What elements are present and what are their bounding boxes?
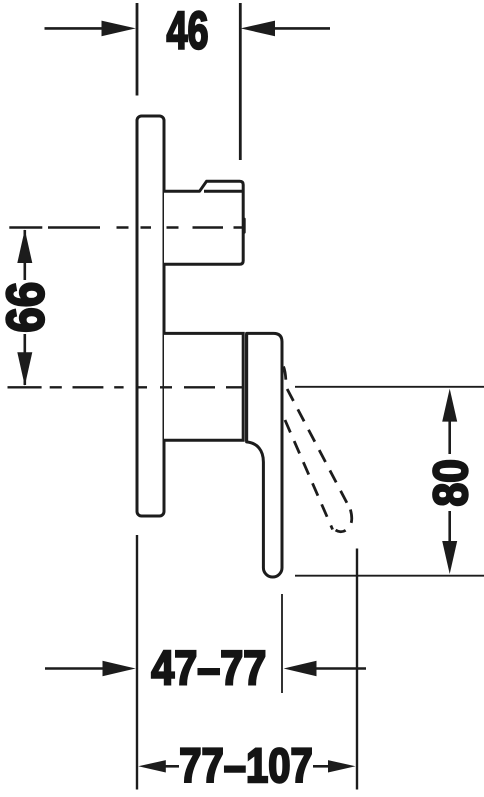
dim 77-107: right arrow [328, 760, 356, 772]
svg-text:47–77: 47–77 [151, 642, 266, 696]
dim 77-107: left arrow [138, 760, 166, 772]
svg-text:80: 80 [424, 459, 478, 507]
extension line below plate [136, 535, 138, 790]
dim 46: right extension line [239, 3, 242, 160]
dim 80: top extension line [295, 386, 484, 388]
svg-text:46: 46 [167, 2, 209, 61]
spout right-edge bump [243, 219, 246, 232]
lever alternate position (dashed) [284, 367, 352, 532]
valve cylinder [164, 333, 243, 440]
lever handle (solid) [247, 333, 282, 577]
spout top inner line [204, 190, 243, 193]
dim 46: left arrow [45, 27, 111, 30]
wall plate [137, 116, 164, 516]
svg-text:77–107: 77–107 [179, 740, 313, 793]
extension line dashed-lever end [356, 549, 358, 790]
dim 46: right arrow [268, 27, 330, 30]
spout block outline [164, 181, 243, 264]
dim 47-77: right arrow [310, 667, 366, 670]
dim 66: dimension line + arrows [23, 230, 26, 280]
dim 80: dimension line + arrows [448, 420, 451, 454]
dim 47-77: left arrow [45, 667, 110, 670]
lever left inner edge [245, 334, 248, 441]
dim 80: bottom extension line [295, 575, 484, 577]
extension line lever end [281, 594, 283, 693]
centerline upper [9, 226, 243, 228]
centerline lower [8, 386, 244, 388]
svg-text:66: 66 [0, 282, 56, 333]
dim 46: left extension line [136, 3, 139, 96]
